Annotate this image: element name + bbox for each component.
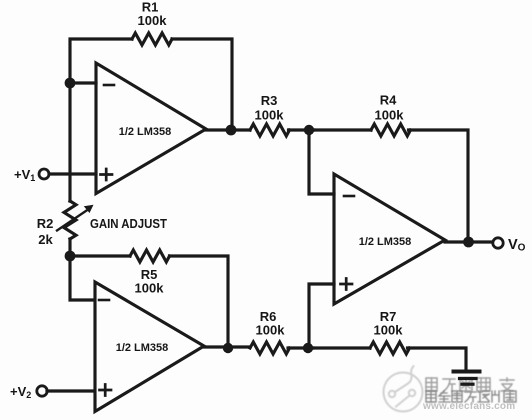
svg-text:1/2 LM358: 1/2 LM358 xyxy=(359,236,412,248)
wire R7 to ground xyxy=(408,348,467,369)
svg-text:1/2 LM358: 1/2 LM358 xyxy=(116,342,169,354)
resistor R7 xyxy=(370,342,410,354)
svg-text:GAIN ADJUST: GAIN ADJUST xyxy=(90,216,167,231)
U1 minus input sign xyxy=(104,84,114,87)
wire U1 output to R3 xyxy=(206,128,250,131)
terminal +V1 xyxy=(39,169,49,179)
svg-text:100k: 100k xyxy=(138,13,168,28)
wire node F down to U3 minus input xyxy=(309,130,334,194)
U3 minus input sign xyxy=(344,195,354,198)
node A junction dot xyxy=(65,78,76,89)
wire inverting input U1 xyxy=(70,81,96,84)
svg-text:2k: 2k xyxy=(38,232,53,247)
svg-text:R3: R3 xyxy=(261,93,278,108)
node C junction dot xyxy=(223,343,233,353)
op-amp U3 (1/2 LM358 right) xyxy=(334,174,445,304)
wire R3 to node F xyxy=(289,128,315,131)
op-amp U2 (1/2 LM358 bottom-left) xyxy=(95,282,204,412)
potentiometer R2 zigzag xyxy=(64,201,76,239)
resistor R6 xyxy=(250,342,290,354)
U3 plus input sign xyxy=(341,279,353,290)
wire R5 to U2 output node xyxy=(170,256,229,343)
wire U1 feedback up and left segment to R1 xyxy=(70,39,132,84)
wire node D to R7 xyxy=(313,346,370,349)
node G output junction dot xyxy=(463,237,474,248)
wire node B to U2 minus input xyxy=(70,256,94,300)
wire node B to R5 xyxy=(70,254,130,257)
wire U3 output to Vo xyxy=(445,240,493,243)
resistor R3 xyxy=(250,124,290,136)
wire pot bottom to node B xyxy=(68,239,71,252)
ground xyxy=(454,370,480,374)
svg-text:100k: 100k xyxy=(255,108,285,123)
wire from node A down to potentiometer xyxy=(68,83,71,201)
svg-text:R4: R4 xyxy=(380,93,397,108)
wire +V2 to U2 plus input xyxy=(47,389,94,392)
wire node D up to U3 plus input xyxy=(309,284,334,347)
svg-text:100k: 100k xyxy=(256,323,286,338)
U1 plus input sign xyxy=(101,169,113,180)
node F junction dot xyxy=(304,125,314,135)
node B junction dot xyxy=(65,251,76,262)
wire R4 down to output node xyxy=(409,130,469,237)
wire +V1 to U1 plus input xyxy=(49,172,96,175)
watermark logo circle xyxy=(384,366,423,411)
U2 minus input sign xyxy=(99,299,109,302)
watermark text line1 电子发烧友 xyxy=(426,378,514,391)
wire node F to R4 xyxy=(314,128,371,131)
terminal +V2 xyxy=(37,386,47,396)
svg-text:R2: R2 xyxy=(37,216,54,231)
resistor R1 xyxy=(132,33,172,45)
svg-text:100k: 100k xyxy=(135,281,165,296)
U2 plus input sign xyxy=(100,385,112,396)
svg-text:100k: 100k xyxy=(375,108,405,123)
wire R1 right segment down to output node xyxy=(172,39,232,125)
svg-text:100k: 100k xyxy=(374,323,404,338)
wire U2 output to node C xyxy=(204,345,250,348)
svg-text:www.elecfans.com: www.elecfans.com xyxy=(422,401,515,412)
wire R6 to node D xyxy=(288,346,313,349)
node D junction dot xyxy=(303,343,313,353)
resistor R4 xyxy=(371,124,411,136)
op-amp U1 (1/2 LM358 top-left) xyxy=(96,63,206,194)
watermark text line2 黄金电子设计圈 xyxy=(426,391,516,402)
terminal Vo xyxy=(493,238,503,248)
potentiometer R2 wiper arrow xyxy=(57,210,88,231)
resistor R5 xyxy=(130,250,170,262)
svg-text:1/2 LM358: 1/2 LM358 xyxy=(119,126,172,138)
node E junction dot (U1 out) xyxy=(226,125,237,136)
